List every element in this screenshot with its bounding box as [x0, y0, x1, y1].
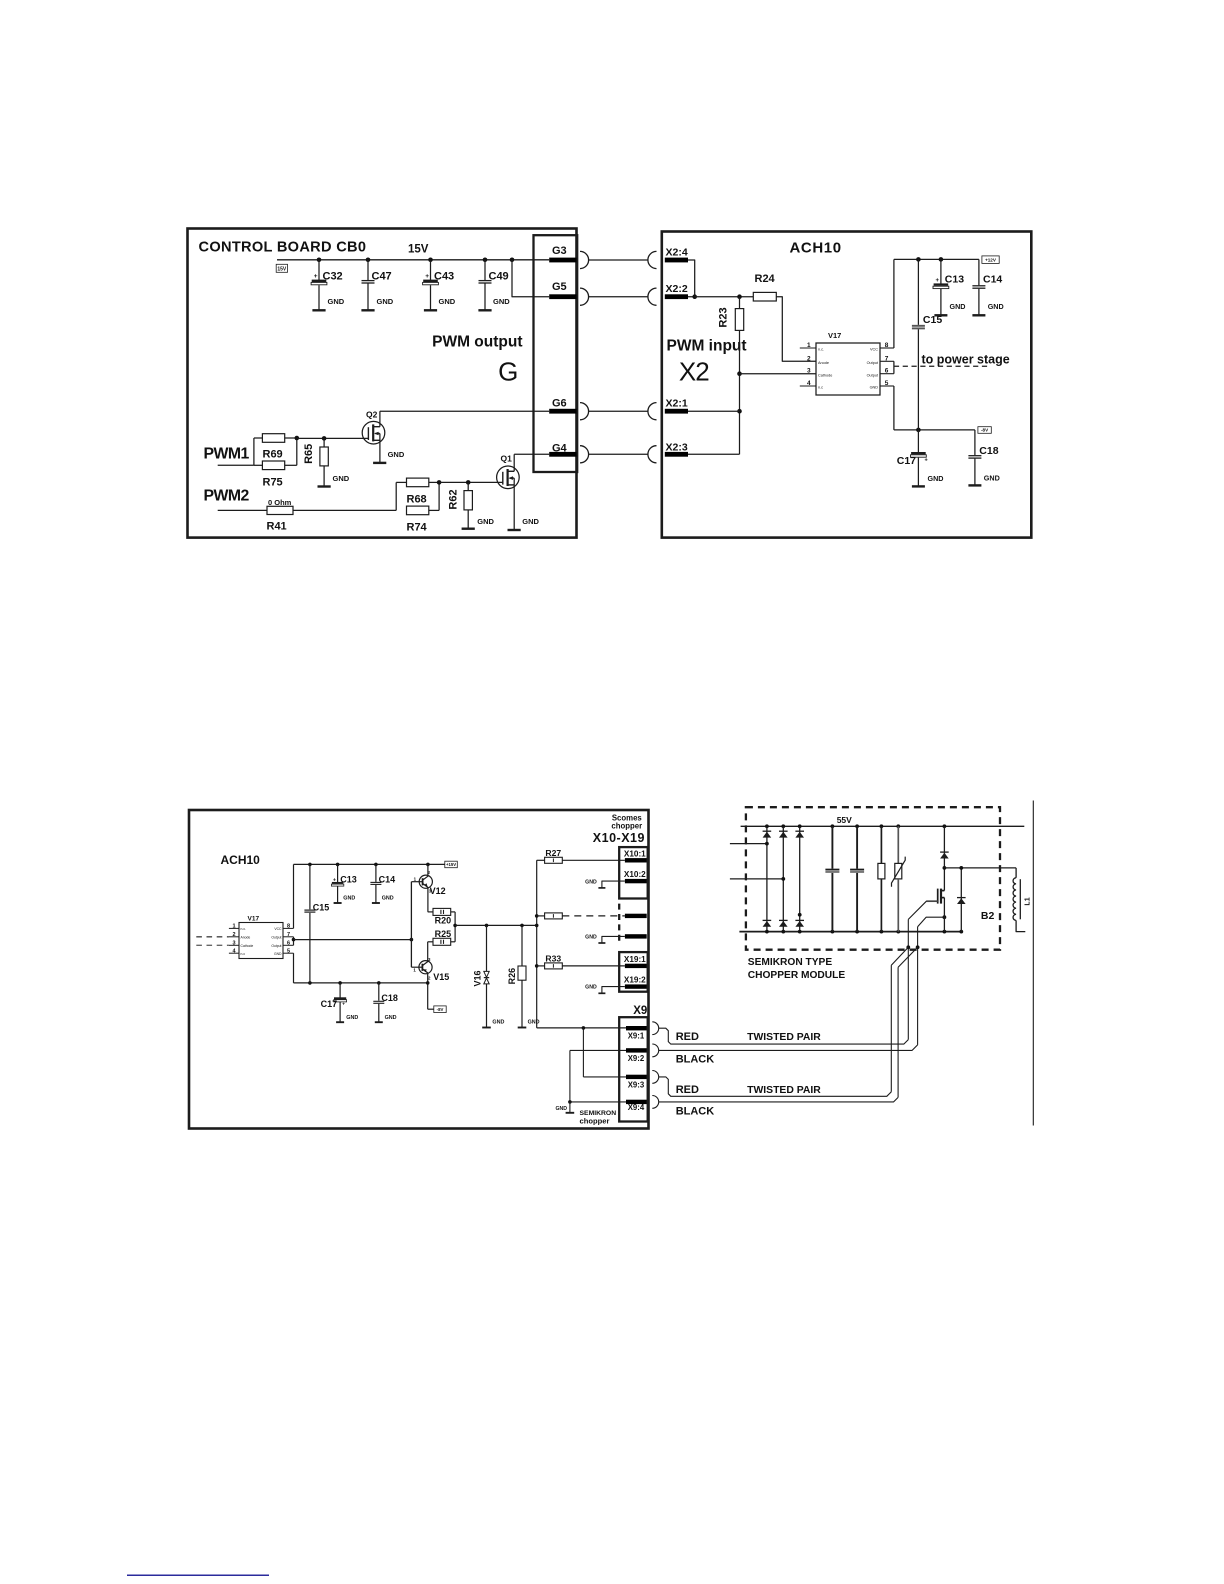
wire output to R27/R33 bus	[455, 924, 537, 926]
boxed label +12V	[982, 256, 999, 264]
pin X19:1	[625, 964, 647, 968]
svg-text:GND: GND	[555, 1106, 567, 1112]
capacitor C43	[430, 260, 432, 280]
connector arcs + wire G5-X2:2	[580, 288, 589, 305]
pin G6	[549, 409, 576, 414]
wire R20/R25 output junction	[451, 911, 455, 913]
wire R33 to X19:1	[562, 965, 625, 967]
svg-text:Cathode: Cathode	[241, 944, 254, 948]
svg-text:GND: GND	[870, 386, 879, 390]
resistor R24	[753, 292, 776, 301]
pin G5	[549, 294, 576, 299]
pin X10:1	[625, 858, 647, 862]
svg-text:+: +	[425, 273, 429, 280]
pin X9:3	[626, 1075, 647, 1079]
right border line	[1032, 801, 1034, 1126]
pin X2:2	[665, 294, 688, 299]
svg-text:C18: C18	[381, 993, 398, 1003]
ground C49	[478, 309, 491, 311]
svg-text:SEMIKRON TYPE: SEMIKRON TYPE	[748, 957, 833, 968]
wire resistor pair left link 2	[395, 482, 397, 510]
wire R27/R33 left bus	[536, 860, 538, 1028]
svg-text:X2:2: X2:2	[666, 283, 688, 295]
boxed label 15V	[276, 264, 287, 272]
svg-text:X19:1: X19:1	[624, 955, 646, 964]
svg-text:GND: GND	[493, 297, 510, 306]
transistor Q1	[497, 466, 520, 489]
wire X9:4 black	[659, 1097, 898, 1102]
svg-text:C14: C14	[983, 274, 1002, 286]
capacitor C18	[974, 430, 976, 455]
wire X2:3 stub	[688, 453, 740, 455]
resistor R74	[407, 506, 429, 515]
svg-text:Anode: Anode	[818, 361, 829, 365]
ground Q1	[508, 529, 521, 531]
capacitor C47	[367, 260, 369, 280]
wire 15V to G5	[512, 260, 549, 297]
svg-text:GND: GND	[328, 297, 345, 306]
rectifier diodes bottom	[763, 919, 772, 921]
resistor R26	[521, 925, 523, 966]
svg-text:RED: RED	[676, 1084, 699, 1096]
svg-text:R62: R62	[447, 489, 459, 509]
junction dots on 15V rail	[317, 258, 322, 263]
svg-text:GND: GND	[492, 1020, 504, 1026]
pin X9:2	[626, 1048, 647, 1052]
svg-text:V16: V16	[472, 970, 482, 986]
svg-text:PWM2: PWM2	[204, 488, 250, 505]
svg-text:VCC: VCC	[870, 348, 878, 352]
capacitor bank 1	[831, 826, 833, 868]
svg-text:G: G	[498, 356, 518, 386]
wire V17(2) pin5 to -8V rail	[283, 952, 294, 954]
svg-text:G3: G3	[552, 245, 567, 257]
svg-text:GND: GND	[585, 985, 597, 991]
svg-text:G6: G6	[552, 397, 567, 409]
svg-text:X19:2: X19:2	[624, 975, 646, 984]
svg-text:GND: GND	[385, 1015, 397, 1021]
capacitor bank 2	[856, 826, 858, 868]
resistor R25	[428, 941, 433, 943]
svg-text:-8V: -8V	[437, 1007, 444, 1012]
svg-text:GND: GND	[988, 302, 1004, 311]
capacitor C17 (2)	[339, 983, 341, 998]
svg-text:TWISTED PAIR: TWISTED PAIR	[747, 1032, 821, 1043]
svg-text:1: 1	[414, 876, 417, 881]
opto-coupler V17 (2)	[239, 923, 283, 959]
bottom rail wire (chopper)	[739, 931, 961, 933]
svg-text:C14: C14	[379, 874, 396, 884]
wire X9:1 red	[659, 1028, 909, 1044]
wire resistor pair right link	[285, 437, 297, 439]
svg-text:PWM output: PWM output	[432, 334, 522, 351]
resistor R68	[396, 481, 406, 483]
svg-text:C43: C43	[434, 271, 454, 283]
resistor (chopper)	[880, 826, 882, 863]
svg-text:1: 1	[413, 967, 416, 972]
capacitor C32	[318, 260, 320, 280]
svg-text:+: +	[936, 278, 940, 284]
capacitor C13	[940, 259, 942, 284]
ground C43	[424, 309, 437, 311]
ground X10:2	[602, 881, 625, 888]
transistor Q2	[362, 421, 385, 444]
svg-text:R20: R20	[435, 916, 452, 926]
svg-text:GND: GND	[984, 473, 1000, 482]
ground X19:2	[602, 987, 625, 993]
svg-text:ACH10: ACH10	[790, 240, 842, 257]
svg-text:V15: V15	[433, 972, 449, 982]
svg-text:PWM1: PWM1	[204, 446, 250, 463]
resistor R75	[254, 464, 263, 466]
svg-text:GND: GND	[382, 896, 394, 902]
svg-text:+: +	[925, 458, 928, 464]
capacitor C18 (2)	[378, 983, 380, 1001]
resistor R20	[428, 911, 433, 913]
capacitor C14	[978, 259, 980, 285]
ground C17	[912, 485, 925, 487]
svg-text:GND: GND	[388, 450, 405, 459]
svg-text:R26: R26	[507, 968, 517, 985]
svg-text:Output: Output	[867, 373, 879, 377]
svg-text:X2:4: X2:4	[666, 247, 688, 259]
55V rail wire	[741, 825, 1025, 827]
wire X9:4 to gnd net	[570, 1101, 626, 1103]
svg-text:chopper: chopper	[611, 821, 642, 830]
svg-text:C18: C18	[979, 445, 998, 457]
control board CB0 outline	[188, 229, 577, 538]
wire X9:2 to gnd net	[570, 1049, 626, 1051]
wire X9:3 to X9:1 net	[583, 1076, 626, 1078]
connector arc X9:3	[652, 1071, 658, 1084]
svg-text:3: 3	[807, 368, 811, 375]
SEMIKRON chopper module dashed box	[746, 807, 1000, 950]
resistor R27	[537, 859, 545, 861]
svg-text:V17: V17	[248, 915, 260, 922]
svg-text:15V: 15V	[408, 243, 429, 255]
svg-text:GND: GND	[346, 1015, 358, 1021]
svg-text:VCC: VCC	[274, 927, 282, 931]
wire X2:2 to R23/R24	[695, 296, 754, 298]
resistor R62	[467, 482, 469, 490]
connector G box	[534, 235, 578, 472]
svg-text:R25: R25	[435, 929, 452, 939]
ACH10 box (PWM input)	[662, 232, 1032, 538]
svg-text:B2: B2	[981, 910, 995, 922]
resistor R69	[254, 437, 263, 439]
svg-text:C49: C49	[489, 271, 509, 283]
pin X2:4	[665, 258, 688, 263]
wire X9:3 red	[659, 1077, 892, 1096]
svg-text:2: 2	[428, 870, 431, 875]
svg-text:C32: C32	[323, 271, 343, 283]
svg-text:X2:3: X2:3	[666, 442, 688, 454]
svg-text:GND: GND	[274, 952, 282, 956]
svg-text:X2: X2	[679, 356, 709, 386]
svg-text:GND: GND	[522, 517, 539, 526]
svg-text:Q2: Q2	[366, 409, 378, 419]
wire X9:2 black	[659, 1045, 918, 1051]
svg-text:GND: GND	[333, 474, 350, 483]
ground C18 (2)	[375, 1021, 383, 1023]
connector arc X9:2	[652, 1044, 658, 1057]
ground C18	[968, 484, 981, 486]
wire R27 to X10:1	[562, 859, 625, 861]
wire bus to X9:1	[537, 1027, 626, 1029]
svg-text:R24: R24	[755, 273, 776, 285]
svg-text:G5: G5	[552, 281, 567, 293]
freewheel diode	[960, 868, 962, 932]
dot V15 emitter bottom rail	[426, 981, 430, 985]
svg-text:R33: R33	[545, 954, 561, 964]
svg-text:CHOPPER MODULE: CHOPPER MODULE	[748, 970, 846, 981]
ground C14	[972, 314, 985, 316]
ground V16	[482, 1027, 491, 1029]
pin X2:1	[665, 409, 688, 414]
ground C47	[361, 309, 374, 311]
wire to power stage (dashed)	[894, 365, 988, 367]
svg-text:Q1: Q1	[501, 454, 513, 464]
wire to Q1 gate	[439, 481, 503, 483]
svg-text:R75: R75	[263, 476, 283, 488]
svg-text:+: +	[314, 273, 318, 280]
wire X2:4 X2:2 bracket	[688, 260, 695, 297]
wire to Q2 gate	[297, 437, 369, 439]
capacitor C14 (2)	[375, 864, 377, 882]
svg-text:Output: Output	[271, 936, 281, 940]
svg-text:R41: R41	[267, 521, 287, 533]
capacitor C15 (2)	[309, 864, 311, 909]
svg-text:ACH10: ACH10	[221, 853, 261, 867]
svg-text:C15: C15	[923, 314, 942, 326]
capacitor C13 (2)	[337, 864, 339, 882]
resistor R23	[739, 297, 741, 309]
svg-text:X9:2: X9:2	[628, 1054, 645, 1063]
wire base bus V12-V15	[410, 882, 412, 968]
wire AC input 2	[730, 878, 783, 880]
svg-text:R23: R23	[718, 307, 730, 327]
resistor R33	[537, 965, 545, 967]
svg-text:+12V: +12V	[985, 258, 997, 263]
svg-text:RED: RED	[676, 1031, 699, 1043]
transistor V15	[419, 961, 432, 974]
svg-text:15V: 15V	[277, 266, 287, 272]
resistor R41 0 Ohm	[267, 506, 293, 514]
svg-text:X10-X19: X10-X19	[593, 831, 645, 845]
svg-text:C13: C13	[340, 874, 357, 884]
wire R24 to V17 pin2	[776, 297, 816, 362]
svg-text:R69: R69	[263, 449, 283, 461]
svg-text:chopper: chopper	[580, 1117, 610, 1126]
wire resistor pair left link	[253, 438, 255, 465]
ACH10 box (chopper driver)	[189, 810, 649, 1129]
wire Q2 drain to G6	[380, 410, 549, 412]
-8V bottom rail wire (2)	[294, 982, 428, 984]
capacitor C15	[917, 259, 919, 325]
svg-text:+: +	[333, 877, 336, 883]
wire Q1 drain to G4	[514, 453, 549, 455]
connector arc X9:1	[652, 1022, 658, 1035]
pins X11-X18 (dashed column)	[618, 904, 620, 946]
rectifier diodes top	[766, 826, 768, 931]
wire source riser (X9:2/X9:4)	[917, 927, 919, 1045]
IGBT transistor (chopper)	[937, 889, 939, 904]
svg-text:+: +	[342, 1002, 345, 1007]
ground R62	[467, 510, 469, 528]
svg-text:n.c.: n.c.	[241, 927, 247, 931]
svg-text:to power stage: to power stage	[922, 352, 1010, 366]
ground C13	[934, 314, 947, 316]
svg-text:R68: R68	[407, 493, 427, 505]
svg-text:PWM input: PWM input	[667, 338, 747, 355]
wire gate riser (X9:1/X9:3)	[907, 919, 909, 1039]
svg-text:R74: R74	[407, 521, 428, 533]
svg-text:3: 3	[428, 957, 431, 962]
svg-text:TWISTED PAIR: TWISTED PAIR	[747, 1085, 821, 1096]
boxed label +15V	[445, 861, 458, 868]
svg-text:2: 2	[807, 355, 811, 362]
ground C32	[312, 309, 325, 311]
pin X19:2	[625, 984, 647, 988]
boxed label -8V	[978, 427, 991, 434]
svg-text:X10:2: X10:2	[624, 870, 646, 879]
connector arcs + wire G4-X2:3	[580, 446, 589, 463]
svg-text:-8V: -8V	[981, 428, 989, 433]
svg-text:GND: GND	[528, 1020, 540, 1026]
wire PWM1 input	[218, 464, 254, 466]
svg-text:0 Ohm: 0 Ohm	[268, 498, 292, 507]
connector X19 box	[619, 952, 648, 992]
wire PWM2 input	[218, 509, 267, 511]
svg-text:GND: GND	[928, 474, 944, 483]
resistor X11-X18 (unlabeled)	[537, 915, 545, 917]
svg-text:GND: GND	[439, 297, 456, 306]
wire V17(2) pin8 to +15V rail	[283, 927, 294, 929]
svg-text:C15: C15	[313, 902, 330, 912]
wire V17 pin7-pin6 link	[880, 360, 894, 362]
svg-text:C17: C17	[897, 455, 916, 467]
svg-text:X9:1: X9:1	[628, 1032, 645, 1041]
opto-coupler V17	[816, 343, 880, 395]
ground C13 (2)	[334, 902, 342, 904]
svg-text:V12: V12	[430, 886, 446, 896]
wire R41 to R68/R74 pair	[293, 509, 396, 511]
svg-text:X10:1: X10:1	[624, 849, 646, 858]
resistor R65	[323, 438, 325, 447]
svg-text:GND: GND	[343, 896, 355, 902]
svg-text:n.c: n.c	[818, 386, 823, 390]
ground C14 (2)	[372, 902, 380, 904]
ground Q2	[373, 462, 386, 464]
ground R26	[518, 1027, 527, 1029]
pin X10:2	[625, 879, 647, 883]
svg-text:Output: Output	[271, 944, 281, 948]
svg-text:C13: C13	[945, 274, 964, 286]
svg-text:Anode: Anode	[241, 936, 251, 940]
svg-text:BLACK: BLACK	[676, 1054, 715, 1066]
boxed label -8V (2)	[434, 1006, 446, 1013]
pin G4	[549, 452, 576, 457]
svg-text:Output: Output	[867, 361, 879, 365]
dashed wire to X11-X18 pins	[562, 915, 625, 917]
svg-text:C17: C17	[321, 999, 338, 1009]
dashed input wires to V17 (2)	[196, 936, 229, 938]
15V rail wire	[277, 259, 549, 261]
+12V rail wire	[894, 258, 979, 260]
inductor L1	[1013, 878, 1016, 921]
svg-text:55V: 55V	[837, 815, 852, 825]
svg-text:X9:3: X9:3	[628, 1080, 645, 1089]
wire resistor pair right link 2	[429, 481, 439, 483]
svg-text:n.c: n.c	[241, 952, 246, 956]
wire V17 pin5 to -8V rail	[880, 385, 894, 387]
suppressor V16	[486, 925, 488, 971]
connector arc X9:4	[652, 1096, 658, 1109]
svg-text:GND: GND	[950, 302, 966, 311]
wire R23 to V17 pin3 and X2:1	[739, 330, 741, 454]
svg-text:C47: C47	[372, 271, 392, 283]
svg-text:X9:4: X9:4	[628, 1103, 645, 1112]
svg-text:X2:1: X2:1	[666, 397, 688, 409]
wire V17(2) pin7-pin6 output	[283, 936, 294, 938]
svg-text:R27: R27	[545, 848, 561, 858]
pin G3	[549, 258, 576, 263]
wire X2:1 stub	[688, 410, 740, 412]
clamp diode (chopper)	[943, 826, 945, 890]
svg-text:V17: V17	[828, 331, 841, 340]
pin X9:4	[626, 1100, 647, 1104]
ground X11-X18 pin2	[602, 936, 625, 942]
svg-text:BLACK: BLACK	[676, 1106, 715, 1118]
ground C17 (2)	[336, 1021, 344, 1023]
svg-text:R65: R65	[303, 444, 315, 464]
+15V rail wire	[294, 863, 445, 865]
capacitor C49	[484, 260, 486, 280]
svg-text:L1: L1	[1025, 897, 1032, 905]
svg-text:GND: GND	[585, 879, 597, 885]
svg-text:+15V: +15V	[446, 862, 456, 867]
wire AC input 1	[730, 843, 767, 845]
varistor (chopper)	[897, 826, 899, 863]
svg-text:GND: GND	[377, 297, 394, 306]
svg-text:GND: GND	[477, 517, 494, 526]
svg-text:2: 2	[428, 975, 431, 980]
transistor V12	[419, 875, 432, 888]
connector X10 box	[619, 847, 648, 898]
capacitor C17	[917, 430, 919, 453]
ground X9 net	[569, 1102, 571, 1113]
connector arcs + wire G6-X2:1	[580, 403, 589, 420]
footer rule	[127, 1574, 269, 1576]
pin X2:3	[665, 452, 688, 457]
connector arcs + wire G3-X2:4	[580, 251, 589, 268]
svg-text:n.c.: n.c.	[818, 348, 824, 352]
wire V17 pin8 to +12V rail	[880, 347, 894, 349]
connector X9 box	[619, 1017, 648, 1121]
svg-text:X9: X9	[633, 1005, 647, 1017]
pin X9:1	[626, 1026, 647, 1030]
-8V rail wire	[894, 429, 975, 431]
svg-text:G4: G4	[552, 442, 568, 454]
ground R65	[323, 466, 325, 486]
svg-text:Cathode: Cathode	[818, 373, 832, 377]
svg-text:GND: GND	[585, 935, 597, 941]
wire to inductor L1	[944, 867, 1016, 869]
svg-text:CONTROL BOARD CB0: CONTROL BOARD CB0	[199, 240, 367, 256]
